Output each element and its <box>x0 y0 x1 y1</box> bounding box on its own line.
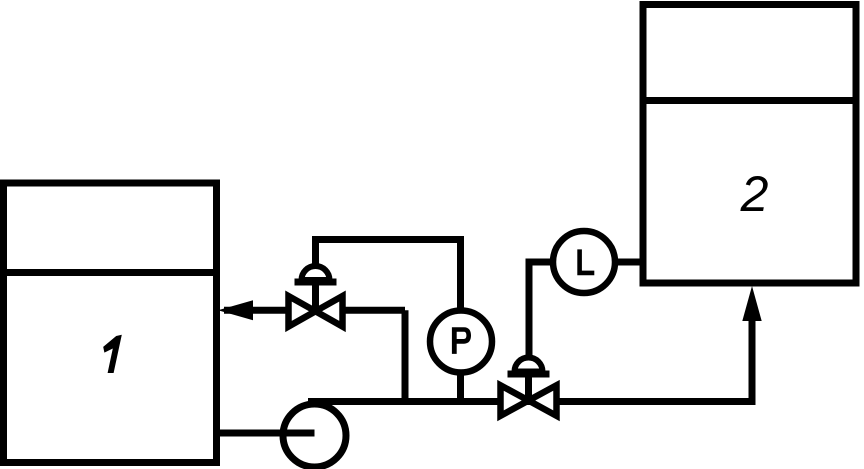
tank 1 <box>4 183 217 463</box>
valve V2 body <box>501 385 557 416</box>
pipe: vertical drop from V1 branch to main line <box>402 310 409 401</box>
signal line: gauge L to valve V2 actuator <box>529 262 553 357</box>
tank 2 liquid level line <box>643 97 856 104</box>
svg-text:2: 2 <box>740 166 769 222</box>
pipe: riser to tank 2 <box>749 316 756 405</box>
label 1 <box>103 335 122 373</box>
signal line: valve V1 actuator to gauge P <box>316 240 461 311</box>
tank 2 <box>643 5 856 284</box>
valve V2 actuator dome <box>508 358 550 375</box>
pipe: valve V1 branch line <box>224 307 405 314</box>
arrow into tank 2 bottom <box>742 286 761 321</box>
pipe: tank 1 bottom outlet to pump center <box>216 430 315 437</box>
gauge P label <box>452 327 471 354</box>
valve V1 body <box>289 296 343 327</box>
pipe: main discharge line from pump to riser corner <box>308 398 752 405</box>
valve V2 stem <box>525 373 532 401</box>
gauge L <box>553 231 615 293</box>
valve V1 actuator dome <box>295 266 337 282</box>
gauge L label <box>577 249 594 275</box>
valve V1 stem <box>312 281 319 311</box>
pipe: gauge L to tank 2 wall <box>612 259 643 266</box>
tank 1 liquid level line <box>0 269 217 276</box>
arrow into tank 1 <box>218 300 253 320</box>
gauge P stem bottom <box>457 375 464 402</box>
pump P1 <box>283 404 346 467</box>
gauge P <box>430 311 492 373</box>
